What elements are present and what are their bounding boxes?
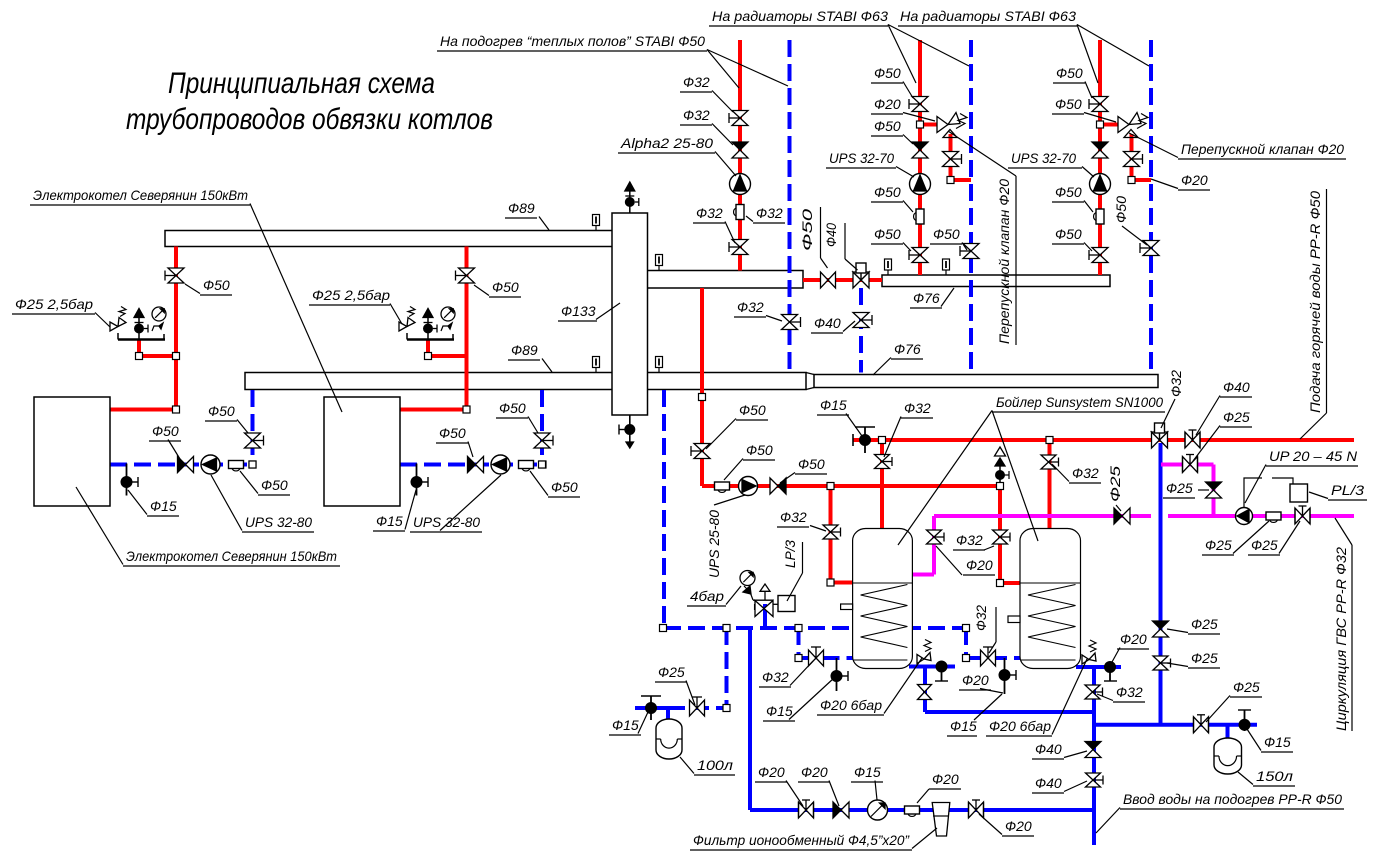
svg-text:Ф20: Ф20 xyxy=(801,764,828,780)
svg-text:UPS 32-80: UPS 32-80 xyxy=(413,514,480,530)
svg-text:Перепускной клапан Ф20: Перепускной клапан Ф20 xyxy=(1181,141,1344,157)
svg-text:Ф25 2,5бар: Ф25 2,5бар xyxy=(312,287,390,303)
svg-text:Ф15: Ф15 xyxy=(820,397,847,413)
svg-text:100л: 100л xyxy=(697,757,733,773)
svg-text:Ф40: Ф40 xyxy=(814,315,841,331)
svg-text:Ф50: Ф50 xyxy=(261,477,288,493)
svg-text:Ф89: Ф89 xyxy=(508,200,535,216)
svg-text:На радиаторы STABI Ф63: На радиаторы STABI Ф63 xyxy=(900,8,1076,24)
svg-text:Ф50: Ф50 xyxy=(439,425,466,441)
svg-text:Ф50: Ф50 xyxy=(1055,184,1082,200)
svg-text:Бойлер Sunsystem SN1000: Бойлер Sunsystem SN1000 xyxy=(996,394,1163,410)
svg-text:Ф76: Ф76 xyxy=(894,341,921,357)
svg-text:Ф25 2,5бар: Ф25 2,5бар xyxy=(15,296,93,312)
svg-text:Ф15: Ф15 xyxy=(766,703,793,719)
svg-text:4бар: 4бар xyxy=(690,588,724,604)
svg-text:Ф50: Ф50 xyxy=(1113,196,1129,223)
svg-text:Ф32: Ф32 xyxy=(956,532,983,548)
svg-text:Ф25: Ф25 xyxy=(1107,466,1123,502)
svg-text:Ф50: Ф50 xyxy=(492,279,519,295)
svg-text:Ф20: Ф20 xyxy=(1005,818,1032,834)
svg-text:Ф32: Ф32 xyxy=(756,205,783,221)
svg-text:UPS 32-70: UPS 32-70 xyxy=(829,150,894,166)
svg-text:Ф25: Ф25 xyxy=(1251,537,1278,553)
svg-text:трубопроводов обвязки котлов: трубопроводов обвязки котлов xyxy=(126,103,493,136)
svg-text:Принципиальная схема: Принципиальная схема xyxy=(168,67,435,100)
svg-text:Ф15: Ф15 xyxy=(950,718,977,734)
svg-text:Электрокотел Северянин 150кВт: Электрокотел Северянин 150кВт xyxy=(33,187,248,203)
svg-text:Циркуляция ГВС PP-R Ф32: Циркуляция ГВС PP-R Ф32 xyxy=(1333,547,1349,731)
svg-text:Ф50: Ф50 xyxy=(874,65,901,81)
svg-text:Ф50: Ф50 xyxy=(874,118,901,134)
svg-text:UPS 32-80: UPS 32-80 xyxy=(245,514,312,530)
svg-text:Ф25: Ф25 xyxy=(1166,480,1193,496)
svg-text:Ф25: Ф25 xyxy=(658,664,685,680)
svg-text:Ф50: Ф50 xyxy=(1055,226,1082,242)
svg-text:Ф50: Ф50 xyxy=(208,403,235,419)
svg-text:Ф32: Ф32 xyxy=(1168,370,1184,397)
svg-text:Ф89: Ф89 xyxy=(511,342,538,358)
svg-text:Ф32: Ф32 xyxy=(683,107,710,123)
svg-text:Ф32: Ф32 xyxy=(780,509,807,525)
svg-text:Ф25: Ф25 xyxy=(1233,679,1260,695)
svg-text:Ф40: Ф40 xyxy=(1223,379,1250,395)
svg-text:Ф32: Ф32 xyxy=(762,669,789,685)
svg-text:Ф20: Ф20 xyxy=(932,771,959,787)
svg-text:Ф20 6бар: Ф20 6бар xyxy=(820,697,882,713)
svg-text:Ф32: Ф32 xyxy=(973,605,989,631)
svg-text:На радиаторы STABI Ф63: На радиаторы STABI Ф63 xyxy=(712,8,888,24)
svg-text:Фильтр ионообменный Ф4,5”х20”: Фильтр ионообменный Ф4,5”х20” xyxy=(693,832,910,848)
svg-text:LP/3: LP/3 xyxy=(782,540,798,568)
svg-text:Ф25: Ф25 xyxy=(1223,409,1250,425)
svg-text:Ф133: Ф133 xyxy=(561,303,596,319)
svg-text:Ф15: Ф15 xyxy=(150,498,177,514)
svg-text:Ф50: Ф50 xyxy=(499,400,526,416)
svg-text:Ф50: Ф50 xyxy=(874,226,901,242)
svg-text:Ф20: Ф20 xyxy=(1120,631,1147,647)
svg-text:Ф50: Ф50 xyxy=(203,277,230,293)
svg-text:Перепускной клапан Ф20: Перепускной клапан Ф20 xyxy=(996,179,1012,344)
svg-text:Ф50: Ф50 xyxy=(933,226,960,242)
svg-text:Ф50: Ф50 xyxy=(798,456,825,472)
svg-text:UPS 25-80: UPS 25-80 xyxy=(706,510,722,578)
svg-text:Ф50: Ф50 xyxy=(799,209,815,251)
svg-text:UP 20 – 45 N: UP 20 – 45 N xyxy=(1269,448,1358,464)
svg-text:На подогрев “теплых полов” STA: На подогрев “теплых полов” STABI Ф50 xyxy=(440,33,705,49)
svg-text:Ф32: Ф32 xyxy=(1072,465,1099,481)
svg-text:Ф50: Ф50 xyxy=(1056,65,1083,81)
svg-text:Ф20 6бар: Ф20 6бар xyxy=(989,718,1051,734)
svg-text:Ф20: Ф20 xyxy=(962,672,989,688)
svg-text:Ф32: Ф32 xyxy=(696,205,723,221)
svg-text:Ф32: Ф32 xyxy=(1116,684,1143,700)
svg-text:Ф20: Ф20 xyxy=(1181,172,1208,188)
svg-text:Ф32: Ф32 xyxy=(904,400,931,416)
svg-text:Подача горячей воды PP-R Ф50: Подача горячей воды PP-R Ф50 xyxy=(1307,191,1323,413)
svg-text:Ф50: Ф50 xyxy=(739,402,766,418)
svg-text:Ф25: Ф25 xyxy=(1191,650,1218,666)
svg-text:Ф15: Ф15 xyxy=(854,764,881,780)
svg-text:Ф15: Ф15 xyxy=(1264,734,1291,750)
svg-text:Ф25: Ф25 xyxy=(1191,616,1218,632)
svg-text:Ф50: Ф50 xyxy=(746,442,773,458)
svg-text:Ф50: Ф50 xyxy=(152,423,179,439)
svg-text:PL/3: PL/3 xyxy=(1331,482,1364,498)
svg-text:Ф32: Ф32 xyxy=(737,299,764,315)
svg-text:UPS 32-70: UPS 32-70 xyxy=(1011,150,1076,166)
svg-text:Ф40: Ф40 xyxy=(823,223,839,247)
svg-text:Ф20: Ф20 xyxy=(966,557,993,573)
svg-text:Ф50: Ф50 xyxy=(551,479,578,495)
svg-text:Ввод воды на подогрев PP-R Ф50: Ввод воды на подогрев PP-R Ф50 xyxy=(1123,791,1342,807)
svg-text:Ф40: Ф40 xyxy=(1035,741,1062,757)
svg-text:Ф15: Ф15 xyxy=(612,717,639,733)
svg-text:Ф40: Ф40 xyxy=(1035,775,1062,791)
svg-text:Электрокотел Северянин 150кВт: Электрокотел Северянин 150кВт xyxy=(126,548,337,564)
svg-text:Alpha2 25-80: Alpha2 25-80 xyxy=(620,135,713,151)
svg-text:Ф20: Ф20 xyxy=(758,764,785,780)
svg-text:Ф15: Ф15 xyxy=(376,513,403,529)
svg-text:Ф76: Ф76 xyxy=(913,290,940,306)
svg-text:150л: 150л xyxy=(1256,768,1293,784)
svg-text:Ф25: Ф25 xyxy=(1205,537,1232,553)
svg-text:Ф50: Ф50 xyxy=(874,184,901,200)
svg-text:Ф32: Ф32 xyxy=(683,74,710,90)
svg-text:Ф50: Ф50 xyxy=(1055,96,1082,112)
svg-text:Ф20: Ф20 xyxy=(874,96,901,112)
